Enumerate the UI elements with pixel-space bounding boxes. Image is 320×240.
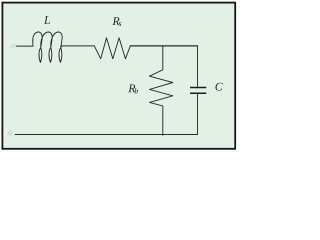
label Rb <box>128 84 135 92</box>
inductor L <box>33 32 63 63</box>
resistor Rs <box>94 38 130 59</box>
wire: capacitor to bottom corner <box>197 94 199 135</box>
break mark bottom-left <box>7 130 13 136</box>
label Rs <box>112 17 119 25</box>
resistor Rb <box>150 46 173 135</box>
wire: inductor to Rs <box>63 45 95 47</box>
label C <box>215 83 222 91</box>
break mark top-left <box>7 44 15 137</box>
label L <box>44 16 50 24</box>
schematic frame <box>0 0 239 153</box>
wire: Rs to top-right corner <box>130 45 197 47</box>
wire: left lead into inductor <box>16 45 33 47</box>
capacitor C plates <box>190 88 206 94</box>
wire: right branch down to capacitor <box>197 46 199 87</box>
wire: bottom return <box>15 134 198 136</box>
